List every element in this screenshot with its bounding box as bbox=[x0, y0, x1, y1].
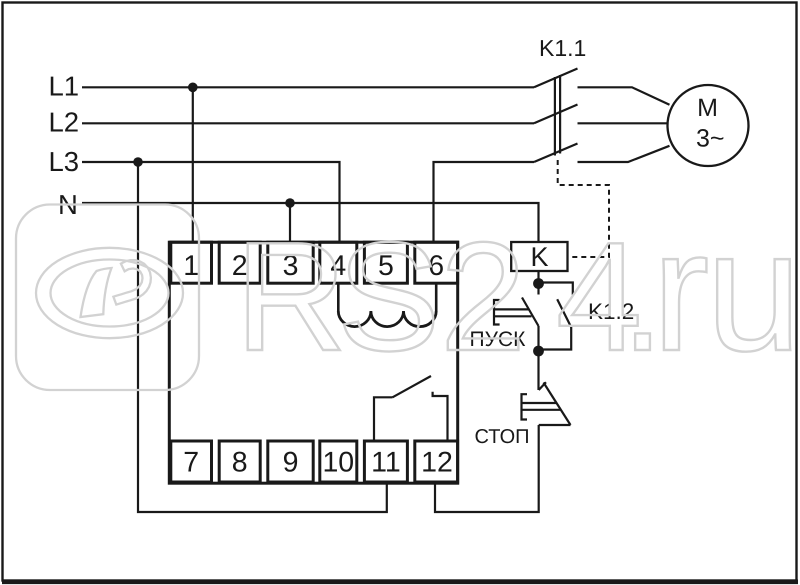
wire L3 branch to terminal 11 bbox=[138, 162, 387, 512]
watermark layer bbox=[16, 195, 800, 390]
svg-text:9: 9 bbox=[283, 446, 299, 478]
terminal 11 bbox=[364, 441, 407, 482]
terminal 4 bbox=[320, 242, 357, 283]
terminal 10 bbox=[320, 441, 357, 482]
wire terminal 6 to contact K1.1 bbox=[434, 162, 535, 242]
wire K1.1 pole 1 to motor bbox=[578, 87, 670, 105]
contactor K1.1 pole 3 blade bbox=[534, 144, 578, 163]
stop button STOP fixed tick bbox=[539, 382, 546, 390]
coil K box bbox=[511, 242, 567, 271]
node below coil K bbox=[533, 278, 544, 289]
svg-text:7: 7 bbox=[183, 446, 199, 478]
start button PUSK blade bbox=[522, 298, 539, 327]
wire L1 to terminal 1 bbox=[192, 87, 194, 242]
watermark logo glyph bbox=[81, 268, 112, 317]
frame bottom thick line bbox=[2, 579, 798, 584]
svg-text:ru: ru bbox=[652, 195, 800, 387]
terminal 1 bbox=[171, 242, 212, 283]
stop button STOP bottom lead bbox=[539, 424, 571, 426]
svg-text:10: 10 bbox=[322, 446, 354, 478]
watermark logo ellipse ring bbox=[36, 248, 183, 338]
node L3 junction bbox=[133, 157, 143, 167]
svg-text:M: M bbox=[697, 94, 718, 122]
terminal 8 bbox=[219, 441, 260, 482]
stop button STOP blade bbox=[544, 383, 571, 426]
dashed link K1.1 to coil K bbox=[558, 160, 609, 257]
svg-text:8: 8 bbox=[232, 446, 248, 478]
stop button STOP actuator bbox=[522, 394, 528, 419]
wire L1 bbox=[82, 86, 534, 88]
watermark logo rounded square bbox=[16, 205, 199, 391]
svg-text:11: 11 bbox=[371, 446, 401, 478]
relay contact inside device bbox=[374, 397, 393, 441]
svg-text:L3: L3 bbox=[49, 146, 80, 177]
svg-text:K1.1: K1.1 bbox=[539, 35, 586, 61]
svg-text:K: K bbox=[530, 242, 548, 272]
svg-text:RS24.: RS24. bbox=[235, 210, 664, 383]
svg-text:3~: 3~ bbox=[696, 124, 725, 152]
wire terminal 12 to stop button bbox=[435, 425, 539, 512]
terminal 2 bbox=[219, 242, 260, 283]
node L1 junction bbox=[188, 83, 198, 93]
terminal 6 bbox=[415, 242, 458, 283]
wire L3 bbox=[82, 162, 340, 242]
svg-text:1: 1 bbox=[183, 250, 199, 282]
svg-text:12: 12 bbox=[421, 446, 453, 478]
terminal 5 bbox=[364, 242, 407, 283]
node parallel join bbox=[533, 346, 544, 357]
device outer box bbox=[169, 242, 457, 483]
wire L2 bbox=[82, 122, 534, 124]
contact K1.2 blade bbox=[557, 299, 571, 327]
wire coil K to start branch bbox=[537, 271, 539, 295]
node N junction bbox=[285, 198, 295, 208]
coil inside device bbox=[337, 283, 340, 311]
contact K1.2 top lead bbox=[539, 283, 573, 295]
terminal 9 bbox=[268, 441, 313, 482]
svg-text:L1: L1 bbox=[49, 71, 80, 102]
wire K1.1 pole 3 to motor bbox=[578, 146, 670, 162]
terminal 3 bbox=[268, 242, 313, 283]
wire N to terminal 3 bbox=[289, 203, 291, 242]
contactor K1.1 pole 2 blade bbox=[534, 105, 578, 124]
start button PUSK actuator bbox=[494, 300, 500, 325]
contactor K1.1 pole 1 blade bbox=[534, 69, 578, 88]
contactor K1.1 linkage bars bbox=[554, 77, 556, 156]
svg-text:L2: L2 bbox=[49, 107, 80, 138]
terminal 12 bbox=[415, 441, 458, 482]
contact K1.2 bottom lead bbox=[539, 327, 572, 350]
wire K1.1 pole 2 to motor bbox=[578, 122, 668, 124]
wire spine below start button bbox=[537, 326, 539, 390]
svg-text:СТОП: СТОП bbox=[475, 426, 530, 448]
wire N bbox=[82, 203, 539, 242]
terminal 7 bbox=[171, 441, 212, 482]
motor M circle bbox=[668, 85, 749, 166]
